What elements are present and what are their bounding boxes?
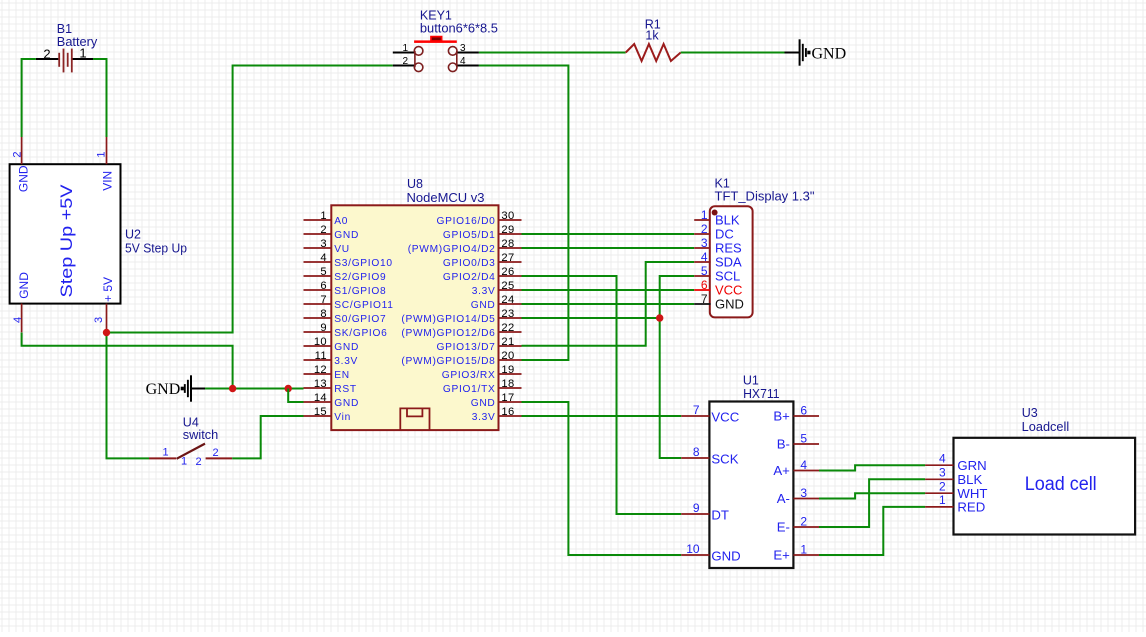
svg-text:HX711: HX711 [743,387,780,401]
U1 pin 6 B+ [793,415,819,417]
svg-text:VU: VU [334,244,350,255]
svg-text:1: 1 [402,43,408,54]
svg-text:GPIO2/D4: GPIO2/D4 [443,272,496,283]
U8 pin 12 EN [304,373,332,375]
svg-text:1: 1 [701,208,708,222]
svg-text:GND: GND [715,297,744,312]
svg-text:VIN: VIN [100,171,114,191]
svg-text:Loadcell: Loadcell [1022,420,1069,434]
U8 pin 19 GPIO3/RX [499,373,522,375]
U8 pin 13 RST [304,387,332,389]
svg-text:(PWM)GPIO14/D5: (PWM)GPIO14/D5 [401,314,495,325]
svg-text:E+: E+ [773,547,790,562]
svg-text:6: 6 [800,404,807,418]
svg-text:5: 5 [800,432,807,446]
U3 pin 4 GRN [925,464,953,466]
U3 pin 3 BLK [925,478,953,480]
svg-text:GND: GND [146,381,181,398]
svg-text:9: 9 [693,501,700,515]
svg-text:SDA: SDA [715,255,742,270]
svg-text:S1/GPIO8: S1/GPIO8 [334,286,386,297]
U3 pin 1 RED [925,506,953,508]
svg-text:GPIO1/TX: GPIO1/TX [443,384,496,395]
U8 pin 2 GND [304,233,332,235]
U1 pin 5 B- [793,443,819,445]
U8 pin 5 S2/GPIO9 [304,275,332,277]
svg-text:10: 10 [314,336,327,348]
svg-text:17: 17 [501,392,514,404]
wire ground rail to U8 RST pin13 [205,388,304,390]
U8 pin 11 3.3V [304,359,332,361]
U8 pin 21 GPIO13/D7 [499,345,522,347]
svg-text:3: 3 [800,486,807,500]
K1 pin 7 GND [694,303,710,305]
svg-text:U8: U8 [407,177,423,191]
svg-text:5: 5 [320,266,327,278]
svg-text:1: 1 [939,493,946,507]
wire U8 GPIO5/D1 pin29 to K1 DC [522,233,695,235]
U8 pin 3 VU [304,247,332,249]
svg-text:Battery: Battery [57,35,98,49]
svg-text:A+: A+ [773,463,790,478]
svg-text:SC/GPIO11: SC/GPIO11 [334,300,393,311]
svg-text:16: 16 [501,406,514,418]
wire U8 GPIO2/D4 pin26 to U1 DT [522,276,682,514]
svg-text:27: 27 [501,252,514,264]
svg-text:24: 24 [501,294,514,306]
svg-text:10: 10 [686,542,700,556]
U1 pin 8 SCK [681,457,709,459]
svg-text:SK/GPIO6: SK/GPIO6 [334,328,387,339]
svg-text:GND: GND [812,45,847,62]
svg-text:18: 18 [501,378,514,390]
svg-text:S2/GPIO9: S2/GPIO9 [334,272,386,283]
U8 pin 22 (PWM)GPIO12/D6 [499,331,522,333]
junction at U2 pin3 [103,329,110,336]
wire branch to U8 GND pin14 [288,389,303,403]
svg-text:A-: A- [777,491,790,506]
wire KEY1 pin4 down to U8 GPIO15/D8 pin20 [479,66,569,361]
display connector K1 TFT [694,206,752,317]
wire KEY1 pin3 to R1 [479,52,626,54]
svg-text:2: 2 [800,515,807,529]
ground (left, at U8 RST) [146,375,205,401]
svg-text:GND: GND [471,398,496,409]
svg-text:26: 26 [501,266,514,278]
U3 pin 2 WHT [925,492,953,494]
svg-text:3: 3 [939,465,946,479]
svg-text:4: 4 [320,252,327,264]
U8 pin 25 3.3V [499,289,522,291]
svg-text:1: 1 [162,447,168,459]
svg-text:7: 7 [693,403,700,417]
junction D5/SCL/SCK [656,314,663,321]
svg-text:BLK: BLK [715,213,740,228]
svg-text:(PWM)GPIO15/D8: (PWM)GPIO15/D8 [401,356,495,367]
svg-text:2: 2 [701,222,708,236]
wire U8 GPIO4/D2 pin28 to K1 RES [522,247,695,249]
svg-text:U1: U1 [743,374,759,388]
K1 pin 5 SCL [694,275,710,277]
U8 pin 1 A0 [304,219,332,221]
svg-text:6: 6 [701,278,708,292]
wire U8 GPIO14/D5 pin23 to SCL/SCK node [522,317,660,319]
U8 pin 28 (PWM)GPIO4/D2 [499,247,522,249]
svg-text:GPIO5/D1: GPIO5/D1 [443,230,496,241]
wire battery pin2 to U2 pin2 [22,59,36,137]
svg-text:NodeMCU v3: NodeMCU v3 [407,191,485,205]
U8 pin 23 (PWM)GPIO14/D5 [499,317,522,319]
wire U8 GND pin17 to U1 GND [522,402,682,555]
svg-text:2: 2 [43,47,50,62]
U1 pin 1 E+ [793,554,819,556]
svg-text:22: 22 [501,322,514,334]
svg-text:19: 19 [501,364,514,376]
wire U1 A- to U3 WHT [819,493,925,498]
svg-text:BLK: BLK [957,472,982,487]
svg-text:8: 8 [693,445,700,459]
svg-text:2: 2 [212,447,218,459]
svg-text:SCK: SCK [711,452,738,467]
svg-text:GND: GND [334,398,359,409]
svg-text:7: 7 [320,294,327,306]
svg-text:SCL: SCL [715,269,740,284]
svg-text:Step Up +5V: Step Up +5V [58,184,76,297]
svg-text:4: 4 [12,317,24,323]
svg-text:GRN: GRN [957,458,986,473]
svg-text:GPIO16/D0: GPIO16/D0 [437,216,496,227]
U8 pin 24 GND [499,303,522,305]
svg-text:TFT_Display 1.3": TFT_Display 1.3" [715,190,815,204]
svg-text:RES: RES [715,241,742,256]
junction ground rail / U8 GND pin14 branch [285,385,292,392]
K1 pin 1 BLK [694,219,710,221]
U8 usb notch [400,408,429,429]
svg-text:4: 4 [701,250,708,264]
svg-text:14: 14 [314,392,327,404]
svg-text:1: 1 [181,456,187,468]
svg-text:1: 1 [800,543,807,557]
wire U1 E+ to U3 RED [819,507,925,555]
U8 pin 8 S0/GPIO7 [304,317,332,319]
battery B1 [36,46,93,73]
switch U4 [149,444,232,468]
svg-text:3: 3 [93,317,105,323]
svg-text:2: 2 [11,151,23,157]
svg-text:switch: switch [183,428,219,442]
svg-text:EN: EN [334,370,350,381]
svg-text:7: 7 [701,292,708,306]
svg-text:VCC: VCC [715,283,742,298]
ground (right, after R1) [785,39,847,65]
U8 pin 15 Vin [304,415,332,417]
svg-text:28: 28 [501,238,514,250]
U8 pin 4 S3/GPIO10 [304,261,332,263]
push button KEY1 [393,37,479,72]
svg-text:GND: GND [334,230,359,241]
svg-text:B+: B+ [773,408,790,423]
svg-text:DC: DC [715,227,734,242]
svg-text:U3: U3 [1022,406,1038,420]
svg-text:KEY1: KEY1 [420,8,452,22]
U1 pin 4 A+ [793,470,819,472]
svg-text:B1: B1 [57,22,72,36]
U1 pin 10 GND [681,554,709,556]
U1 pin 3 A- [793,498,819,500]
wire K1 SCL down to U1 SCK [660,276,695,458]
svg-text:23: 23 [501,308,514,320]
svg-text:RED: RED [957,500,985,515]
U8 pin 18 GPIO1/TX [499,387,522,389]
wire U1 E- to U3 BLK [819,479,925,527]
svg-text:25: 25 [501,280,514,292]
U8 pin 9 SK/GPIO6 [304,331,332,333]
svg-text:1: 1 [95,151,107,157]
svg-text:20: 20 [501,350,514,362]
wire U8 3.3V pin25 to K1 VCC [522,289,695,291]
svg-text:3: 3 [701,236,708,250]
svg-text:VCC: VCC [711,410,739,425]
svg-text:15: 15 [314,406,327,418]
wire U4 pin2 to U8 Vin pin15 [232,416,303,458]
svg-text:GND: GND [334,342,359,353]
svg-text:2: 2 [195,456,201,468]
svg-text:2: 2 [320,224,327,236]
U8 pin 26 GPIO2/D4 [499,275,522,277]
svg-text:GPIO0/D3: GPIO0/D3 [443,258,496,269]
U8 pin 6 S1/GPIO8 [304,289,332,291]
svg-text:GND: GND [471,300,496,311]
U8 pin 30 GPIO16/D0 [499,219,522,221]
svg-text:29: 29 [501,224,514,236]
svg-text:2: 2 [939,479,946,493]
U8 pin 16 3.3V [499,415,522,417]
svg-text:3.3V: 3.3V [334,356,358,367]
K1 pin 2 DC [694,233,710,235]
resistor R1 [626,44,681,61]
svg-text:4: 4 [800,458,807,472]
svg-text:A0: A0 [334,216,348,227]
svg-text:RST: RST [334,384,356,395]
wire +5V: U2 pin3 up to KEY1 pin2 [107,66,393,333]
wire U8 GND pin24 to K1 GND [522,303,695,305]
wire U1 A+ to U3 GRN [819,465,925,470]
wire U8 3.3V pin16 to U1 VCC [522,415,682,417]
wire U8 GPIO13/D7 pin21 to K1 SDA [522,262,695,346]
svg-text:1: 1 [320,210,327,222]
svg-text:U2: U2 [125,228,141,242]
svg-text:3.3V: 3.3V [472,286,496,297]
svg-text:+ 5V: + 5V [101,277,115,302]
svg-text:button6*6*8.5: button6*6*8.5 [420,21,498,35]
svg-text:(PWM)GPIO12/D6: (PWM)GPIO12/D6 [401,328,495,339]
svg-text:GND: GND [711,549,740,564]
K1 pin 6 VCC [694,289,710,291]
amplifier U1 HX711 [681,402,819,569]
svg-text:30: 30 [501,210,514,222]
K1 pin1 mark [712,210,718,216]
wire GND: U2 pin4 down and right to ground rail [22,333,233,389]
U8 pin 27 GPIO0/D3 [499,261,522,263]
wire battery pin1 to U2 pin1 [93,59,107,137]
U8 pin 7 SC/GPIO11 [304,303,332,305]
U8 pin 10 GND [304,345,332,347]
svg-text:Load cell: Load cell [1025,474,1097,495]
svg-text:5: 5 [701,264,708,278]
svg-text:4: 4 [939,451,946,465]
junction ground rail / U2 GND [229,385,236,392]
U1 pin 2 E- [793,526,819,528]
wire +5V: junction down to switch U4 pin1 [107,333,150,459]
svg-text:GPIO3/RX: GPIO3/RX [442,370,496,381]
U1 pin 7 VCC [681,415,709,417]
svg-text:GND: GND [17,165,31,192]
svg-text:8: 8 [320,308,327,320]
svg-text:GND: GND [17,272,31,299]
U8 pin 14 GND [304,401,332,403]
K1 pin 4 SDA [694,261,710,263]
K1 pin 3 RES [694,247,710,249]
U8 pin 20 (PWM)GPIO15/D8 [499,359,522,361]
U8 pin 29 GPIO5/D1 [499,233,522,235]
microcontroller U8 NodeMCU v3 [304,205,522,430]
svg-text:5V Step Up: 5V Step Up [125,242,187,256]
svg-text:B-: B- [777,436,790,451]
svg-text:E-: E- [777,519,790,534]
wire R1 to ground [681,52,785,54]
svg-text:3: 3 [460,43,466,54]
svg-text:6: 6 [320,280,327,292]
svg-text:3: 3 [320,238,327,250]
svg-text:(PWM)GPIO4/D2: (PWM)GPIO4/D2 [408,244,496,255]
svg-text:2: 2 [402,56,408,67]
U1 pin 9 DT [681,513,709,515]
svg-text:13: 13 [314,378,327,390]
svg-text:DT: DT [711,508,729,523]
svg-text:S0/GPIO7: S0/GPIO7 [334,314,386,325]
svg-text:4: 4 [460,56,466,67]
svg-text:1k: 1k [645,29,659,43]
svg-text:K1: K1 [715,177,730,191]
svg-text:9: 9 [320,322,327,334]
svg-text:Vin: Vin [334,412,351,423]
svg-text:11: 11 [315,350,327,362]
svg-text:21: 21 [501,336,514,348]
svg-text:S3/GPIO10: S3/GPIO10 [334,258,392,269]
svg-text:3.3V: 3.3V [472,412,496,423]
load cell U3 [925,438,1135,535]
U8 pin 17 GND [499,401,522,403]
svg-text:GPIO13/D7: GPIO13/D7 [437,342,496,353]
svg-text:12: 12 [314,364,327,376]
step-up module U2 [10,137,121,333]
